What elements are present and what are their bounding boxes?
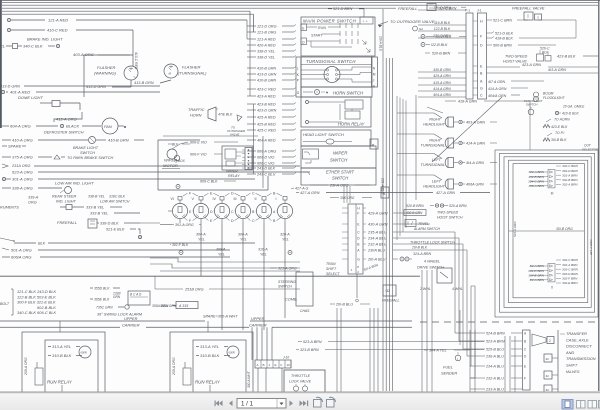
svg-text:523-A BRN: 523-A BRN (486, 340, 505, 344)
svg-text:I22-B BLK: I22-B BLK (431, 43, 448, 47)
svg-text:420-A RED: 420-A RED (257, 44, 276, 48)
svg-text:525-B BLU: 525-B BLU (486, 348, 504, 352)
svg-text:RELAY: RELAY (228, 174, 240, 178)
svg-text:313-A YEL: 313-A YEL (200, 344, 219, 349)
svg-text:232-A BLU: 232-A BLU (367, 243, 387, 247)
svg-text:333-B YEL: 333-B YEL (90, 212, 108, 216)
svg-text:P-1: P-1 (465, 9, 470, 13)
svg-text:414-A GRN: 414-A GRN (466, 142, 485, 146)
svg-text:1 / 1: 1 / 1 (241, 401, 254, 408)
svg-text:SWITCH: SWITCH (278, 285, 292, 289)
svg-text:606-E VIO: 606-E VIO (190, 141, 207, 145)
svg-text:251B ORG: 251B ORG (184, 288, 204, 292)
svg-text:C: C (231, 210, 234, 214)
svg-text:302-F BLK: 302-F BLK (172, 243, 189, 247)
svg-text:606-D VIO: 606-D VIO (257, 156, 275, 160)
svg-text:DRIVE SWITCH: DRIVE SWITCH (417, 266, 444, 270)
svg-text:313-A YEL: 313-A YEL (52, 344, 71, 349)
svg-text:FLASHER: FLASHER (182, 65, 201, 70)
svg-text:404-A RED: 404-A RED (257, 139, 276, 143)
svg-text:G: G (480, 87, 483, 91)
svg-text:324-A BRN: 324-A BRN (413, 252, 431, 256)
svg-text:HORN SWITCH: HORN SWITCH (333, 91, 364, 96)
svg-text:500-B BRN: 500-B BRN (493, 44, 512, 48)
svg-text:23I-A ORG: 23I-A ORG (329, 184, 349, 188)
svg-text:TWO-SPEED: TWO-SPEED (437, 211, 459, 215)
svg-text:604-A ORG: 604-A ORG (10, 124, 31, 129)
svg-text:121-C BLK 243-D BLK: 121-C BLK 243-D BLK (17, 289, 57, 294)
svg-text:ƗALVES: ƗALVES (566, 369, 580, 374)
svg-text:CL: CL (0, 44, 5, 49)
svg-text:4I7 A GRN: 4I7 A GRN (488, 80, 506, 84)
svg-text:HEAD LIGHT SWITCH: HEAD LIGHT SWITCH (303, 132, 344, 137)
svg-text:III: III (234, 197, 237, 201)
svg-text:524-A GRN: 524-A GRN (513, 221, 517, 237)
svg-text:338-B YEL: 338-B YEL (88, 195, 105, 199)
svg-text:A 315: A 315 (178, 304, 188, 308)
svg-text:606-C BLK: 606-C BLK (200, 180, 218, 184)
svg-text:UPPER: UPPER (251, 316, 265, 321)
svg-text:340-C BLK 606-C BLK: 340-C BLK 606-C BLK (17, 310, 57, 315)
svg-text:SELECTOR: SELECTOR (582, 148, 599, 152)
svg-text:WIPER: WIPER (333, 151, 348, 156)
svg-text:323-A ORG: 323-A ORG (278, 267, 297, 271)
svg-text:BRAKE LIGHT: BRAKE LIGHT (73, 146, 99, 150)
svg-text:429-A GRN: 429-A GRN (368, 212, 388, 216)
svg-text:F: F (357, 212, 359, 216)
svg-text:M: M (373, 72, 376, 76)
svg-text:308/A: 308/A (216, 248, 226, 252)
svg-text:HORN RELAY: HORN RELAY (338, 122, 365, 127)
svg-text:10: 10 (287, 363, 291, 367)
svg-text:339-A: 339-A (28, 196, 39, 200)
svg-text:3I2-A BRN: 3I2-A BRN (529, 278, 544, 282)
svg-text:427-A G: 427-A G (295, 187, 308, 191)
svg-text:J-10: J-10 (283, 356, 289, 360)
svg-text:423-C RED: 423-C RED (257, 88, 276, 92)
svg-text:2I0-A BLU: 2I0-A BLU (367, 258, 386, 262)
svg-text:413-D GRN: 413-D GRN (257, 73, 277, 77)
svg-text:GA: GA (419, 27, 423, 31)
svg-text:415-A GRN: 415-A GRN (433, 81, 451, 85)
svg-text:HOIST SWITCH: HOIST SWITCH (437, 216, 463, 220)
svg-text:RUN: RUN (318, 26, 326, 30)
svg-text:RUN RELAY: RUN RELAY (47, 380, 73, 385)
svg-text:TURNSIGNAL: TURNSIGNAL (421, 144, 445, 148)
svg-text:23I/A BLU: 23I/A BLU (367, 249, 385, 253)
svg-text:410-B GRN: 410-B GRN (257, 79, 276, 83)
svg-text:316-A: 316-A (258, 248, 268, 252)
svg-text:FREEFALL: FREEFALL (57, 220, 77, 225)
svg-text:I: I (276, 197, 277, 201)
svg-text:520-B BRN: 520-B BRN (432, 52, 451, 56)
svg-text:BLACK: BLACK (66, 124, 79, 129)
svg-text:RUN RELAY: RUN RELAY (195, 380, 221, 385)
svg-text:365E BLK: 365E BLK (94, 298, 110, 302)
svg-text:333-B YEL: 333-B YEL (86, 206, 104, 210)
svg-text:B: B (263, 363, 265, 367)
svg-text:BLK: BLK (172, 143, 179, 147)
svg-text:52I-C BRN: 52I-C BRN (439, 6, 457, 10)
svg-text:THROTTLE: THROTTLE (291, 374, 311, 378)
svg-text:(WARNING): (WARNING) (94, 71, 117, 76)
svg-text:375-A ORG: 375-A ORG (12, 155, 33, 160)
svg-text:D: D (210, 210, 213, 214)
svg-text:H: H (480, 20, 483, 24)
svg-text:523-A BRN: 523-A BRN (303, 340, 322, 344)
svg-text:TURNSIGNAL SWITCH: TURNSIGNAL SWITCH (306, 59, 356, 64)
svg-text:LOCK VALVE: LOCK VALVE (289, 380, 312, 384)
svg-text:524-B BRN: 524-B BRN (486, 332, 505, 336)
svg-text:606-F VIO: 606-F VIO (190, 153, 207, 157)
svg-text:338-A ORG: 338-A ORG (12, 186, 33, 191)
svg-text:TRANSFER: TRANSFER (566, 331, 587, 336)
svg-text:3I6-B BLK: 3I6-B BLK (551, 138, 567, 142)
svg-text:G: G (357, 258, 360, 262)
svg-text:UPPER: UPPER (124, 316, 138, 321)
svg-text:338-D YEL: 338-D YEL (257, 56, 275, 60)
svg-text:TWO-SPEED: TWO-SPEED (505, 55, 528, 59)
svg-text:THROTTLE LOCK SWITCH: THROTTLE LOCK SWITCH (410, 241, 455, 245)
svg-text:TO PARK BRAKE SWITCH: TO PARK BRAKE SWITCH (67, 156, 114, 160)
svg-text:ORG: ORG (28, 201, 37, 205)
svg-text:LEFT: LEFT (432, 158, 442, 162)
svg-text:423-A RED: 423-A RED (257, 95, 276, 99)
svg-text:TO HORN: TO HORN (554, 118, 570, 122)
svg-text:300-F BLK 321-E BLK: 300-F BLK 321-E BLK (17, 300, 56, 305)
svg-text:LEFT: LEFT (432, 180, 442, 184)
svg-text:521-C BRN: 521-C BRN (493, 19, 512, 23)
svg-text:423-B RED: 423-B RED (257, 103, 276, 107)
svg-text:STEERING: STEERING (278, 280, 296, 284)
svg-text:RUMENTS: RUMENTS (0, 206, 19, 210)
svg-text:355D BLK: 355D BLK (94, 287, 110, 291)
svg-text:209-A ORG: 209-A ORG (24, 357, 28, 376)
svg-text:47IE BLK: 47IE BLK (218, 113, 233, 117)
svg-text:TURNSIGNAL: TURNSIGNAL (421, 163, 445, 167)
svg-text:TRVEL: TRVEL (418, 222, 429, 226)
svg-text:C: C (252, 219, 255, 223)
svg-text:TRAN: TRAN (326, 262, 336, 266)
svg-text:P: P (357, 265, 359, 269)
svg-text:RIGHT: RIGHT (429, 118, 441, 122)
svg-text:BRAKE IND. LIGHT: BRAKE IND. LIGHT (27, 37, 63, 42)
svg-text:413-D GRN: 413-D GRN (86, 85, 106, 89)
svg-text:FUEL: FUEL (443, 365, 453, 370)
svg-text:P: P (297, 78, 299, 82)
svg-text:TO OUTRIGGER VALVE: TO OUTRIGGER VALVE (390, 19, 435, 24)
svg-text:302-C BRN: 302-C BRN (562, 258, 579, 262)
svg-text:243-C BLU: 243-C BLU (256, 173, 276, 177)
svg-text:SENDER: SENDER (441, 371, 457, 376)
svg-text:32: 32 (546, 374, 550, 378)
svg-text:427-A GRN: 427-A GRN (300, 191, 320, 195)
svg-text:SHIFT: SHIFT (326, 267, 337, 271)
svg-text:YEL: YEL (282, 238, 289, 242)
svg-text:32: 32 (546, 357, 550, 361)
svg-text:231A ORG: 231A ORG (11, 164, 30, 168)
svg-text:403-A ORG: 403-A ORG (73, 52, 94, 57)
svg-text:LOW AIR IND. LIGHT: LOW AIR IND. LIGHT (55, 181, 94, 186)
svg-text:CARRIER: CARRIER (122, 323, 140, 328)
svg-text:E: E (275, 363, 277, 367)
svg-text:414-A GRN: 414-A GRN (433, 87, 451, 91)
svg-text:301-A ORG: 301-A ORG (12, 177, 33, 182)
svg-text:YEL: YEL (260, 253, 267, 257)
svg-text:121-B ORG: 121-B ORG (257, 31, 276, 35)
svg-text:BOX: BOX (178, 159, 186, 163)
svg-text:F: F (524, 377, 526, 381)
svg-text:DISCONNECT: DISCONNECT (566, 344, 592, 349)
svg-text:318C BLK: 318C BLK (109, 195, 126, 199)
svg-text:233-A BLU: 233-A BLU (485, 388, 504, 392)
svg-text:E: E (524, 365, 526, 369)
svg-text:423-E BLK: 423-E BLK (551, 125, 568, 129)
svg-text:⊥ ⊥: ⊥ ⊥ (362, 19, 368, 23)
svg-text:521-E BLK: 521-E BLK (106, 228, 125, 232)
svg-text:FREEFALL VALVE: FREEFALL VALVE (512, 6, 545, 11)
svg-text:FREEFALL: FREEFALL (382, 299, 399, 303)
svg-text:410-D BLK: 410-D BLK (562, 112, 579, 116)
svg-text:340-C BLK: 340-C BLK (23, 44, 43, 49)
svg-text:D: D (480, 44, 483, 48)
svg-text:338-D BLK: 338-D BLK (100, 222, 119, 226)
svg-text:E: E (302, 26, 304, 30)
svg-text:413-D GRN: 413-D GRN (0, 85, 20, 89)
svg-text:304-A YEL: 304-A YEL (429, 349, 447, 353)
svg-text:302-A BRN: 302-A BRN (562, 183, 578, 187)
svg-text:4 WHL: 4 WHL (452, 287, 463, 291)
svg-text:602-B BLK: 602-B BLK (37, 305, 56, 310)
svg-text:ETHER START: ETHER START (326, 170, 355, 175)
svg-text:L: L (297, 66, 299, 70)
svg-text:606-C VIO: 606-C VIO (257, 162, 275, 166)
svg-text:235-A BLU: 235-A BLU (367, 231, 387, 235)
svg-text:303-C BRN: 303-C BRN (562, 267, 579, 271)
svg-text:232-A BLU: 232-A BLU (485, 377, 504, 381)
svg-text:425-C RED: 425-C RED (257, 129, 276, 133)
svg-text:410-C RED: 410-C RED (47, 28, 68, 33)
svg-text:423-B BLK: 423-B BLK (557, 55, 576, 59)
svg-text:430-A GRN: 430-A GRN (368, 223, 388, 227)
svg-text:122-B BLK 503-E BLK: 122-B BLK 503-E BLK (17, 294, 56, 299)
svg-text:243-D BLK: 243-D BLK (256, 167, 276, 171)
svg-text:MOTOR: MOTOR (163, 163, 178, 168)
svg-text:TRANSMISSION: TRANSMISSION (566, 356, 596, 361)
svg-text:425-B RED: 425-B RED (257, 123, 276, 127)
svg-text:520-A BRN: 520-A BRN (449, 204, 467, 208)
svg-text:310-B BLK: 310-B BLK (200, 353, 220, 358)
svg-text:410-B GRN: 410-B GRN (257, 67, 276, 71)
svg-text:TO P.I: TO P.I (555, 131, 564, 135)
svg-text:(TURNSIGNAL): (TURNSIGNAL) (178, 71, 207, 76)
svg-text:302-A BRN: 302-A BRN (562, 263, 578, 267)
svg-text:122-B BLK: 122-B BLK (434, 27, 451, 31)
svg-text:406A GRN: 406A GRN (466, 183, 484, 187)
svg-text:B: B (524, 340, 526, 344)
svg-text:301-A BRN: 301-A BRN (562, 173, 578, 177)
svg-text:CASE, AXLE: CASE, AXLE (566, 337, 589, 342)
svg-text:RIGHT: RIGHT (429, 139, 441, 143)
svg-text:20-GA. CABLE: 20-GA. CABLE (562, 105, 585, 109)
svg-text:301-A ORG: 301-A ORG (175, 223, 194, 227)
svg-text:302-C BRN: 302-C BRN (562, 164, 579, 168)
svg-text:HEADLIGHT: HEADLIGHT (423, 123, 445, 127)
svg-text:209-A ORG: 209-A ORG (172, 357, 176, 376)
svg-text:SWITCH: SWITCH (332, 176, 348, 181)
svg-text:300-A WHT: 300-A WHT (247, 370, 251, 388)
svg-text:427-A GRN: 427-A GRN (436, 191, 455, 195)
svg-text:LOW AIR SWITCH: LOW AIR SWITCH (100, 200, 130, 204)
svg-text:4I3-A GRN: 4I3-A GRN (548, 68, 566, 72)
svg-text:404-A GRN: 404-A GRN (433, 93, 451, 97)
svg-text:D: D (231, 219, 234, 223)
svg-text:3I6-B BLK: 3I6-B BLK (435, 35, 452, 39)
svg-text:430 B GRN: 430 B GRN (406, 211, 423, 215)
svg-text:SWITCH: SWITCH (526, 103, 538, 107)
svg-text:404/A GRN: 404/A GRN (488, 94, 507, 98)
svg-text:606-A ORG: 606-A ORG (257, 150, 276, 154)
svg-text:302-D BRN: 302-D BRN (562, 169, 579, 173)
svg-text:521-D BLK: 521-D BLK (495, 32, 514, 36)
svg-text:302-E BRN: 302-E BRN (562, 281, 578, 285)
svg-text:429-A GRN: 429-A GRN (433, 74, 451, 78)
svg-text:418-B BLK: 418-B BLK (495, 37, 513, 41)
svg-text:201-A BLU: 201-A BLU (381, 177, 385, 195)
svg-text:BOOM: BOOM (543, 92, 554, 96)
svg-text:COMB.: COMB. (285, 298, 297, 302)
svg-text:410-A ORG: 410-A ORG (12, 138, 33, 143)
svg-text:418-A GRN: 418-A GRN (458, 100, 477, 104)
svg-text:CHAS: CHAS (300, 309, 310, 313)
svg-text:BLK: BLK (38, 242, 46, 246)
svg-text:425-A RED: 425-A RED (257, 116, 276, 120)
svg-text:FLOODLIGHT: FLOODLIGHT (543, 96, 566, 100)
svg-text:IND. LIGHT: IND. LIGHT (56, 200, 77, 204)
svg-text:338-D YEL: 338-D YEL (257, 50, 275, 54)
svg-text:SWITCH: SWITCH (330, 158, 348, 163)
svg-text:401-A RED: 401-A RED (10, 90, 30, 95)
svg-text:YEL: YEL (240, 238, 247, 242)
svg-text:HEADLIGHT: HEADLIGHT (423, 185, 445, 189)
svg-text:AND: AND (565, 350, 574, 355)
svg-text:403-A GRN: 403-A GRN (466, 121, 485, 125)
svg-text:REAR STEER: REAR STEER (52, 195, 77, 199)
svg-text:430-B GRN: 430-B GRN (433, 68, 451, 72)
svg-text:234-A BLU: 234-A BLU (367, 237, 387, 241)
svg-text:521-D BRN: 521-D BRN (333, 7, 353, 11)
svg-text:4I4-A GRN: 4I4-A GRN (466, 161, 484, 165)
svg-text:J-1: J-1 (477, 9, 482, 13)
svg-text:121-A RED: 121-A RED (257, 38, 276, 42)
svg-text:SPARE=300-A WHT: SPARE=300-A WHT (203, 315, 238, 319)
svg-text:II: II (255, 197, 257, 201)
svg-text:316-B BLK: 316-B BLK (434, 21, 451, 25)
svg-text:START: START (311, 34, 323, 38)
svg-text:310-B BLK: 310-B BLK (52, 353, 72, 358)
svg-text:523-A ORG: 523-A ORG (12, 170, 33, 175)
svg-text:SHIFT: SHIFT (566, 363, 578, 368)
svg-text:520-B BRN: 520-B BRN (406, 204, 424, 208)
svg-text:234-A BLU: 234-A BLU (485, 365, 504, 369)
svg-text:735C GRN: 735C GRN (96, 306, 113, 310)
svg-text:SELECT: SELECT (326, 272, 340, 276)
svg-text:413-B GRN: 413-B GRN (134, 81, 154, 85)
svg-text:SPARE: SPARE (8, 144, 22, 149)
svg-text:YEL: YEL (198, 238, 205, 242)
svg-text:DEFROSTER SWITCH: DEFROSTER SWITCH (44, 131, 84, 135)
svg-text:410-B GRN: 410-B GRN (108, 138, 129, 143)
svg-text:YEL: YEL (218, 253, 225, 257)
svg-text:121-D ORG: 121-D ORG (257, 25, 277, 29)
svg-text:302-B BRN: 302-B BRN (562, 178, 578, 182)
svg-text:D: D (231, 192, 234, 196)
svg-text:30I-B ORG: 30I-B ORG (556, 227, 573, 231)
svg-text:121-A RED: 121-A RED (48, 18, 68, 23)
svg-text:423-A GRN: 423-A GRN (522, 63, 541, 67)
svg-text:HORN: HORN (190, 113, 202, 118)
svg-text:F: F (281, 363, 283, 367)
svg-text:MAIN POWER SWITCH: MAIN POWER SWITCH (303, 19, 357, 24)
svg-text:Ω2: Ω2 (386, 289, 391, 293)
svg-text:ALARM SWITCH: ALARM SWITCH (413, 227, 441, 231)
svg-text:4 WHEEL: 4 WHEEL (424, 260, 440, 264)
svg-text:33I0 ORG: 33I0 ORG (340, 196, 355, 200)
svg-text:606/A ORG: 606/A ORG (11, 255, 32, 260)
svg-text:A: A (257, 363, 259, 367)
svg-text:FLASHER: FLASHER (97, 65, 116, 70)
svg-text:303-D BRN: 303-D BRN (562, 272, 579, 276)
svg-text:423-D GRN: 423-D GRN (257, 109, 277, 113)
svg-text:414-A GRN: 414-A GRN (488, 87, 507, 91)
svg-text:501-A ORG: 501-A ORG (11, 248, 32, 253)
svg-text:C: C (480, 94, 483, 98)
svg-text:324-A GRN: 324-A GRN (589, 239, 593, 255)
svg-text:600R: 600R (81, 351, 87, 355)
svg-text:III: III (551, 191, 554, 195)
svg-text:236-A BLU: 236-A BLU (485, 355, 504, 359)
svg-text:TRAFFIC: TRAFFIC (188, 107, 205, 112)
svg-text:20I-A BLU: 20I-A BLU (379, 35, 383, 52)
svg-text:FREEFALL: FREEFALL (398, 6, 417, 11)
svg-text:20I-B BLU: 20I-B BLU (335, 303, 353, 307)
svg-text:VI: VI (171, 197, 174, 201)
svg-text:2: 2 (549, 339, 551, 343)
svg-text:FAN: FAN (104, 124, 112, 129)
svg-text:BOLT: BOLT (0, 302, 10, 306)
svg-text:20I-B BLK: 20I-B BLK (411, 246, 428, 250)
svg-text:GRN: GRN (113, 295, 121, 299)
svg-text:302-F BRN: 302-F BRN (562, 277, 578, 281)
svg-text:B C A D: B C A D (130, 293, 142, 297)
svg-text:3I2-A BRN: 3I2-A BRN (529, 264, 544, 268)
svg-text:C: C (252, 192, 255, 196)
svg-text:323-B BRN: 323-B BRN (300, 348, 319, 352)
svg-text:355A GRN: 355A GRN (160, 304, 177, 308)
svg-text:IV: IV (213, 197, 217, 201)
svg-text:DOME LIGHT: DOME LIGHT (18, 95, 43, 100)
svg-text:SWITCH: SWITCH (80, 151, 95, 155)
svg-text:600R: 600R (229, 351, 235, 355)
svg-text:2 WHL: 2 WHL (419, 287, 431, 291)
